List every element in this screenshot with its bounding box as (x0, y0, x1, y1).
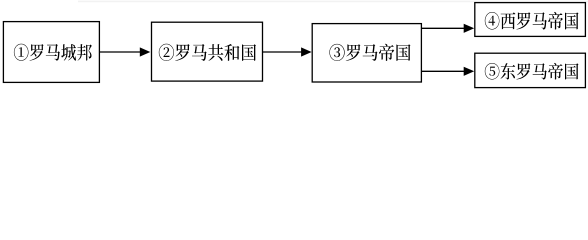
box 1 ①罗马城邦 (3, 22, 99, 83)
arrow box2 to box3 (263, 47, 312, 56)
box 2 ②罗马共和国 (152, 22, 263, 81)
arrow box3 to box5 (421, 67, 474, 76)
faint page rule at top (78, 1, 588, 3)
box 4 ④西罗马帝国 (475, 3, 586, 37)
arrow box1 to box2 (100, 47, 151, 56)
arrow box3 to box4 (421, 24, 474, 33)
box 3 ③罗马帝国 (312, 24, 421, 82)
box 5 ⑤东罗马帝国 (475, 53, 586, 87)
